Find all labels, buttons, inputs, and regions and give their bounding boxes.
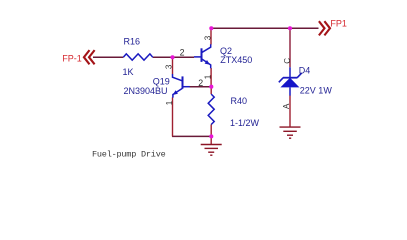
svg-text:R16: R16: [124, 36, 141, 46]
svg-text:FP-1: FP-1: [62, 54, 82, 64]
svg-text:1K: 1K: [123, 67, 134, 77]
svg-text:2N3904BU: 2N3904BU: [124, 86, 168, 96]
svg-text:ZTX450: ZTX450: [220, 55, 252, 65]
svg-text:R40: R40: [231, 96, 248, 106]
svg-text:2: 2: [180, 48, 185, 58]
svg-text:3: 3: [203, 35, 212, 40]
svg-text:Q19: Q19: [153, 77, 170, 87]
svg-text:D4: D4: [299, 66, 311, 76]
svg-text:1-1/2W: 1-1/2W: [230, 118, 260, 128]
svg-text:3: 3: [165, 64, 174, 69]
svg-text:1: 1: [165, 100, 174, 105]
svg-text:1: 1: [203, 74, 212, 79]
svg-text:FP1: FP1: [330, 19, 347, 29]
svg-text:A: A: [282, 103, 291, 109]
svg-text:C: C: [283, 58, 292, 64]
svg-text:22V 1W: 22V 1W: [300, 85, 333, 95]
svg-text:Fuel-pump Drive: Fuel-pump Drive: [92, 150, 166, 160]
